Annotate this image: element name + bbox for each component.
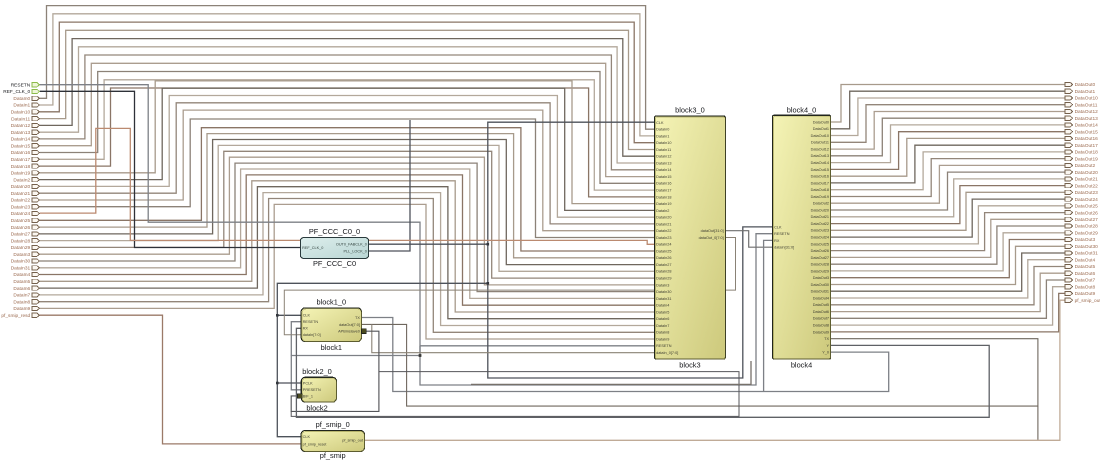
svg-text:DataIn29: DataIn29 [656, 277, 671, 281]
svg-text:DataOut22: DataOut22 [1075, 183, 1099, 189]
wire net DataIn5: port to block3.DataIn5 [40, 181, 655, 312]
svg-text:DataIn30: DataIn30 [11, 259, 31, 265]
port DataIn3 [32, 252, 40, 256]
svg-text:block3: block3 [679, 361, 700, 370]
port DataOut12 [1065, 109, 1073, 113]
port DataOut18 [1065, 150, 1073, 154]
svg-text:DataIn12: DataIn12 [656, 155, 671, 159]
port DataOut15 [1065, 130, 1073, 134]
svg-text:DataIn18: DataIn18 [656, 195, 671, 199]
svg-text:DataOut16: DataOut16 [811, 175, 829, 179]
port DataOut8 [1065, 285, 1073, 289]
svg-text:BIF_1: BIF_1 [303, 394, 313, 398]
wire net DataIn30: port to block3.DataIn30 [40, 163, 655, 292]
svg-text:dataIn[31:0]: dataIn[31:0] [774, 246, 794, 250]
svg-text:OUT0_FABCLK_0: OUT0_FABCLK_0 [336, 243, 367, 247]
port DataIn7 [32, 293, 40, 297]
svg-text:PF_CCC_C0: PF_CCC_C0 [313, 259, 356, 268]
svg-text:CLK: CLK [774, 225, 782, 229]
wire net DataIn29: port to block3.DataIn29 [40, 151, 655, 278]
svg-text:DataOut17: DataOut17 [1075, 143, 1099, 149]
port DataIn20 [32, 184, 40, 188]
svg-text:DataIn13: DataIn13 [656, 161, 671, 165]
svg-text:DataOut4: DataOut4 [1075, 257, 1096, 263]
block2 BIF_1 bus pin [298, 394, 303, 399]
wire net DataOut14: block4.DataOut14 to port [831, 125, 1065, 163]
wire net DataOut23: block4.DataOut23 to port [831, 192, 1065, 230]
svg-text:DataOut30: DataOut30 [811, 283, 829, 287]
svg-text:DataIn1: DataIn1 [656, 134, 669, 138]
svg-text:block4: block4 [791, 361, 812, 370]
wire net DataIn25: port to block3.DataIn25 [40, 128, 655, 251]
svg-text:DataOut26: DataOut26 [811, 249, 829, 253]
svg-text:RX: RX [774, 239, 780, 243]
wire net DataOut24: block4.DataOut24 to port [831, 199, 1065, 237]
svg-text:DataIn14: DataIn14 [11, 137, 31, 143]
svg-text:block4_0: block4_0 [787, 106, 817, 115]
port DataIn12 [32, 123, 40, 127]
wire net DataOut2: block4.DataOut2 to port [831, 165, 1065, 203]
port DataIn26 [32, 225, 40, 229]
wire RESETN branch to block3.RESETN [419, 346, 421, 356]
port DataOut19 [1065, 157, 1073, 161]
svg-text:DataOut8: DataOut8 [813, 324, 829, 328]
wire net DataIn14: port to block3.DataIn14 [40, 55, 655, 170]
wire net DataIn24 (salmon) port to block3.DataIn24 [40, 128, 655, 244]
svg-text:DataIn12: DataIn12 [11, 123, 31, 129]
wire net DataIn15: port to block3.DataIn15 [40, 63, 655, 176]
wire net DataIn27: port to block3.DataIn27 [40, 140, 655, 265]
svg-text:DataIn28: DataIn28 [656, 270, 671, 274]
svg-text:APBmslave0: APBmslave0 [338, 330, 360, 334]
svg-text:CLK: CLK [656, 121, 664, 125]
svg-text:DataOut11: DataOut11 [811, 141, 829, 145]
wire net DataIn7: port to block3.DataIn7 [40, 193, 655, 326]
wire net DataIn9: port to block3.DataIn9 [40, 204, 655, 339]
svg-text:DataIn5: DataIn5 [656, 310, 669, 314]
svg-text:DataOut28: DataOut28 [811, 263, 829, 267]
port DataOut11 [1065, 103, 1073, 107]
wire net DataOut16: block4.DataOut16 to port [831, 138, 1065, 176]
svg-text:DataOut10: DataOut10 [811, 134, 829, 138]
port DataOut10 [1065, 96, 1073, 100]
svg-text:RESETN: RESETN [774, 232, 790, 236]
svg-text:TX: TX [355, 316, 360, 320]
svg-text:DataIn23: DataIn23 [11, 204, 31, 210]
svg-text:PCLK: PCLK [303, 381, 313, 385]
svg-text:DataIn1: DataIn1 [13, 103, 30, 109]
svg-text:DataIn16: DataIn16 [11, 150, 31, 156]
svg-text:DataIn4: DataIn4 [13, 272, 30, 278]
svg-text:DataOut4: DataOut4 [813, 296, 829, 300]
svg-text:RESETN: RESETN [303, 320, 319, 324]
port DataIn13 [32, 130, 40, 134]
svg-text:PF_CCC_C0_0: PF_CCC_C0_0 [309, 227, 360, 236]
wire net DataOut18: block4.DataOut18 to port [831, 152, 1065, 190]
port RESETN [32, 83, 40, 87]
svg-text:DataIn6: DataIn6 [656, 317, 669, 321]
wire net DataOut13: block4.DataOut13 to port [831, 118, 1065, 156]
svg-text:DataOut6: DataOut6 [1075, 271, 1096, 277]
svg-text:DataOut8: DataOut8 [1075, 284, 1096, 290]
wire net DataOut5: block4.DataOut5 to port [831, 267, 1065, 305]
svg-text:DataIn23: DataIn23 [656, 236, 671, 240]
wire net REF_CLK_0 (left port to PF_CCC_C0_0.REF_CLK_0) [40, 91, 301, 247]
svg-text:DataIn17: DataIn17 [656, 189, 671, 193]
wire net DataIn8: port to block3.DataIn8 [40, 199, 655, 333]
svg-text:block2_0: block2_0 [302, 367, 332, 376]
wire net DataOut3: block4.DataOut3 to port [831, 240, 1065, 278]
wire net pf_smip_out (tan) pf_smip to right port [365, 300, 1066, 440]
port DataIn14 [32, 137, 40, 141]
svg-text:DataOut15: DataOut15 [1075, 129, 1099, 135]
port DataIn11 [32, 117, 40, 121]
wire RESETN branch to block1/block2 [291, 356, 420, 390]
svg-text:DataIn21: DataIn21 [656, 222, 671, 226]
wire net DataOut21: block4.DataOut21 to port [831, 179, 1065, 217]
svg-text:DataIn14: DataIn14 [656, 168, 671, 172]
svg-text:DataOut28: DataOut28 [1075, 224, 1099, 230]
svg-text:DataOut1: DataOut1 [1075, 89, 1096, 95]
wire net pf_smip_resd (salmon) left port to pf_smip.pf_smip_reset [40, 315, 302, 444]
port DataOut22 [1065, 184, 1073, 188]
clock trunk down and to block4.CLK [488, 227, 773, 378]
svg-text:DataOut7: DataOut7 [1075, 278, 1096, 284]
wire net DataOut26: block4.DataOut26 to port [831, 213, 1065, 251]
wire net DataOut27: block4.DataOut27 to port [831, 219, 1065, 257]
port DataOut5 [1065, 264, 1073, 268]
clock branch left to small blocks [277, 283, 488, 436]
wire net DataIn1: port to block3.DataIn1 [40, 14, 655, 136]
block1 APBmslave0 bus pin [362, 329, 367, 334]
port DataOut3 [1065, 237, 1073, 241]
svg-text:DataOut3: DataOut3 [813, 276, 829, 280]
svg-text:DataIn18: DataIn18 [11, 164, 31, 170]
wire net DataIn6: port to block3.DataIn6 [40, 187, 655, 319]
wire net DataOut22: block4.DataOut22 to port [831, 186, 1065, 224]
wire net DataIn17: port to block3.DataIn17 [40, 80, 655, 190]
svg-text:DataIn24: DataIn24 [11, 211, 31, 217]
svg-text:DataIn21: DataIn21 [11, 191, 31, 197]
wire net DataIn31: port to block3.DataIn31 [40, 169, 655, 298]
svg-text:DataOut31: DataOut31 [1075, 251, 1099, 257]
svg-text:DataIn8: DataIn8 [656, 331, 669, 335]
svg-text:DataIn31: DataIn31 [11, 266, 31, 272]
svg-text:DataIn10: DataIn10 [11, 110, 31, 116]
svg-text:DataIn13: DataIn13 [11, 130, 31, 136]
svg-text:DataIn30: DataIn30 [656, 290, 671, 294]
wire net DataIn10: port to block3.DataIn10 [40, 22, 655, 143]
svg-text:DataIn3: DataIn3 [13, 252, 30, 258]
block2_0 [301, 377, 336, 402]
port DataOut20 [1065, 170, 1073, 174]
svg-text:DataIn22: DataIn22 [656, 229, 671, 233]
svg-text:RESETN: RESETN [11, 82, 31, 88]
svg-text:DataOut25: DataOut25 [811, 242, 829, 246]
wire net DataOut8: block4.DataOut8 to port [831, 287, 1065, 325]
svg-text:DataOut24: DataOut24 [1075, 197, 1099, 203]
svg-text:DataOut0: DataOut0 [1075, 82, 1096, 88]
wire net DataOut7: block4.DataOut7 to port [831, 280, 1065, 318]
svg-text:DataIn27: DataIn27 [11, 232, 31, 238]
svg-text:DataOut15: DataOut15 [811, 168, 829, 172]
svg-text:dataIn_0[7:0]: dataIn_0[7:0] [656, 351, 678, 355]
svg-text:block2: block2 [306, 404, 327, 413]
svg-text:CLK: CLK [303, 435, 311, 439]
wire net DataOut11: block4.DataOut11 to port [831, 105, 1065, 143]
wire net DataOut28: block4.DataOut28 to port [831, 226, 1065, 264]
wire net DataIn13: port to block3.DataIn13 [40, 47, 655, 163]
wire net DataIn16: port to block3.DataIn16 [40, 72, 655, 184]
svg-text:DataOut29: DataOut29 [811, 269, 829, 273]
svg-text:DataOut2: DataOut2 [1075, 163, 1096, 169]
svg-text:DataIn25: DataIn25 [11, 218, 31, 224]
port DataOut30 [1065, 244, 1073, 248]
svg-text:DataOut3: DataOut3 [1075, 237, 1096, 243]
port DataIn31 [32, 266, 40, 270]
svg-text:DataIn7: DataIn7 [13, 293, 30, 299]
svg-text:DataOut22: DataOut22 [811, 222, 829, 226]
wire net DataIn11: port to block3.DataIn11 [40, 30, 655, 149]
port DataIn10 [32, 110, 40, 114]
svg-text:DataIn2: DataIn2 [13, 177, 30, 183]
svg-text:PRESETN: PRESETN [303, 388, 321, 392]
svg-text:DataOut21: DataOut21 [811, 215, 829, 219]
svg-text:DataOut6: DataOut6 [813, 310, 829, 314]
wire net DataOut15: block4.DataOut15 to port [831, 132, 1065, 170]
svg-text:DataIn4: DataIn4 [656, 304, 669, 308]
wire net DataIn4: port to block3.DataIn4 [40, 175, 655, 305]
svg-text:DataOut23: DataOut23 [1075, 190, 1099, 196]
wire net DataIn20: port to block3.DataIn20 [40, 96, 655, 218]
block4 pin labels [774, 120, 829, 354]
port pf_smip_resd [32, 313, 40, 317]
svg-text:DataIn22: DataIn22 [11, 198, 31, 204]
svg-text:DataOut30: DataOut30 [1075, 244, 1099, 250]
port DataOut26 [1065, 211, 1073, 215]
svg-text:DataOut27: DataOut27 [811, 256, 829, 260]
block4_0 (large) [773, 115, 831, 359]
port DataIn2 [32, 178, 40, 182]
clock stub to block2.PCLK [277, 382, 301, 384]
svg-text:TX: TX [824, 337, 829, 341]
decor nested wire under block3 [471, 361, 751, 384]
svg-text:DataOut26: DataOut26 [1075, 210, 1099, 216]
wire net DataOut12: block4.DataOut12 to port [831, 112, 1065, 150]
port DataIn23 [32, 205, 40, 209]
port DataIn29 [32, 245, 40, 249]
svg-text:DataOut19: DataOut19 [811, 195, 829, 199]
port DataIn5 [32, 279, 40, 283]
svg-text:DataIn16: DataIn16 [656, 182, 671, 186]
svg-text:DataOut1: DataOut1 [813, 127, 829, 131]
svg-text:DataOut10: DataOut10 [1075, 96, 1099, 102]
port DataOut4 [1065, 258, 1073, 262]
svg-text:DataOut11: DataOut11 [1075, 102, 1098, 108]
wire net PLL_LOCK_0 from PF_CCC up [369, 120, 411, 251]
svg-text:pf_smip_out: pf_smip_out [1075, 298, 1100, 304]
svg-text:dataOut[7:0]: dataOut[7:0] [339, 323, 360, 327]
wire net DataIn18: port to block3.DataIn18 [40, 88, 655, 197]
svg-text:DataOut29: DataOut29 [1075, 231, 1099, 237]
svg-text:DataOut19: DataOut19 [1075, 156, 1099, 162]
port DataOut23 [1065, 190, 1073, 194]
svg-text:pf_smip: pf_smip [320, 451, 346, 460]
svg-text:DataIn0: DataIn0 [13, 96, 30, 102]
svg-text:DataOut24: DataOut24 [811, 236, 829, 240]
svg-text:DataOut0: DataOut0 [813, 120, 829, 124]
svg-text:DataOut13: DataOut13 [811, 154, 829, 158]
port DataOut25 [1065, 204, 1073, 208]
svg-text:RX: RX [303, 327, 309, 331]
svg-text:DataOut14: DataOut14 [811, 161, 829, 165]
svg-text:DataIn24: DataIn24 [656, 243, 671, 247]
port DataOut9 [1065, 291, 1073, 295]
port DataIn17 [32, 157, 40, 161]
svg-text:DataIn8: DataIn8 [13, 299, 30, 305]
svg-text:DataOut25: DataOut25 [1075, 204, 1099, 210]
svg-text:DataOut21: DataOut21 [1075, 177, 1099, 183]
svg-text:DataOut18: DataOut18 [1075, 150, 1099, 156]
svg-text:pf_smip_resd: pf_smip_resd [1, 313, 30, 319]
port DataOut16 [1065, 136, 1073, 140]
clock stub to block1.CLK [277, 314, 301, 316]
wire block1.dataOut to block3.dataIn_0[7:0] [372, 324, 655, 352]
wire net DataOut1: block4.DataOut1 to port [831, 91, 1065, 129]
port DataOut2 [1065, 163, 1073, 167]
svg-text:DataIn29: DataIn29 [11, 245, 31, 251]
port DataIn22 [32, 198, 40, 202]
wire net DataIn28: port to block3.DataIn28 [40, 145, 655, 271]
port DataOut14 [1065, 123, 1073, 127]
port DataIn15 [32, 144, 40, 148]
svg-text:DataIn5: DataIn5 [13, 279, 30, 285]
svg-text:DataIn6: DataIn6 [13, 286, 30, 292]
wire net DataOut31: block4.DataOut31 to port [831, 253, 1065, 291]
svg-text:DataOut7: DataOut7 [813, 317, 829, 321]
svg-text:DataOut17: DataOut17 [811, 181, 829, 185]
svg-text:DataOut27: DataOut27 [1075, 217, 1099, 223]
port DataIn8 [32, 300, 40, 304]
wire RESETN branch to block1.RESETN [291, 322, 301, 356]
svg-text:DataIn15: DataIn15 [11, 143, 31, 149]
port REF_CLK_0 [32, 89, 40, 93]
svg-text:DataIn11: DataIn11 [656, 148, 671, 152]
svg-text:DataOut9: DataOut9 [1075, 291, 1096, 297]
wire net DataOut30: block4.DataOut30 to port [831, 246, 1065, 284]
svg-text:DataIn7: DataIn7 [656, 324, 669, 328]
port DataOut21 [1065, 177, 1073, 181]
port DataIn18 [32, 164, 40, 168]
wire net DataIn22: port to block3.DataIn22 [40, 110, 655, 231]
port DataIn0 [32, 96, 40, 100]
wire net OUT0_FABCLK_0 (clock) PF_CCC to block3.CLK [369, 122, 655, 244]
wire net DataIn26: port to block3.DataIn26 [40, 134, 655, 258]
wire net DataOut9: block4.DataOut9 to port [831, 293, 1065, 332]
svg-text:DataIn26: DataIn26 [656, 256, 671, 260]
wire stub down to tan line [1037, 406, 1039, 440]
port DataIn6 [32, 286, 40, 290]
svg-text:pf_smip_0: pf_smip_0 [316, 420, 350, 429]
wire net DataOut0: block4.DataOut0 to port [831, 85, 1065, 123]
svg-text:dataIn[7:0]: dataIn[7:0] [303, 333, 321, 337]
wire net DataIn2: port to block3.DataIn2 [40, 88, 655, 210]
wire bus dataOut_0[7:0] block3 to block1.dataIn[7:0] [284, 238, 735, 335]
svg-text:DataIn26: DataIn26 [11, 225, 31, 231]
port DataOut27 [1065, 217, 1073, 221]
wire net DataIn23: port to block3.DataIn23 [40, 119, 655, 238]
port DataIn1 [32, 103, 40, 107]
svg-text:block1: block1 [321, 343, 342, 352]
svg-text:PLL_LOCK_0: PLL_LOCK_0 [343, 249, 366, 253]
port DataOut6 [1065, 271, 1073, 275]
block3 left pin labels [656, 121, 724, 355]
svg-text:DataIn20: DataIn20 [656, 216, 671, 220]
svg-text:DataOut23: DataOut23 [811, 229, 829, 233]
svg-text:DataIn10: DataIn10 [656, 141, 671, 145]
wire net DataOut10: block4.DataOut10 to port [831, 98, 1065, 136]
wire net DataIn0: port to block3.DataIn0 [40, 6, 655, 130]
wire net DataOut19: block4.DataOut19 to port [831, 159, 1065, 197]
port DataIn16 [32, 150, 40, 154]
block1_0 [301, 308, 361, 342]
wire net DataIn3: port to block3.DataIn3 [40, 157, 655, 285]
port DataOut31 [1065, 251, 1073, 255]
svg-text:DataOut18: DataOut18 [811, 188, 829, 192]
port DataIn27 [32, 232, 40, 236]
svg-text:DataOut14: DataOut14 [1075, 123, 1099, 129]
port DataIn4 [32, 272, 40, 276]
svg-text:DataOut12: DataOut12 [811, 148, 829, 152]
wire bus dataOut[31:0] block3 to block4.dataIn[31:0] [725, 231, 772, 248]
wire branch up to block4.RX [764, 240, 773, 391]
svg-text:REF_CLK_0: REF_CLK_0 [3, 89, 30, 95]
svg-text:DataIn15: DataIn15 [656, 175, 671, 179]
svg-text:DataIn9: DataIn9 [656, 337, 669, 341]
svg-text:DataIn31: DataIn31 [656, 297, 671, 301]
svg-text:DataOut12: DataOut12 [1075, 109, 1099, 115]
op block PF_CCC_C0_0 [301, 238, 369, 259]
wire net RESETN trunk (left port down at x=148 and to block4.RESETN) [40, 85, 773, 385]
svg-text:DataIn19: DataIn19 [656, 202, 671, 206]
port DataIn30 [32, 259, 40, 263]
port DataIn21 [32, 191, 40, 195]
wire block4.Y to block1.RX [296, 328, 989, 417]
port pf_smip_out [1065, 298, 1073, 302]
svg-text:DataIn20: DataIn20 [11, 184, 31, 190]
svg-text:DataIn27: DataIn27 [656, 263, 671, 267]
pf_smip_0 [301, 431, 365, 452]
svg-text:pf_smip_out: pf_smip_out [342, 439, 364, 443]
svg-text:REF_CLK_0: REF_CLK_0 [302, 246, 323, 250]
port DataOut13 [1065, 116, 1073, 120]
svg-text:RESETN: RESETN [656, 344, 672, 348]
wire net DataIn12: port to block3.DataIn12 [40, 39, 655, 157]
port DataOut1 [1065, 89, 1073, 93]
port DataIn19 [32, 171, 40, 175]
wire net DataOut17: block4.DataOut17 to port [831, 145, 1065, 183]
wire net DataIn19: port to block3.DataIn19 [40, 81, 655, 204]
port DataOut28 [1065, 224, 1073, 228]
svg-text:DataOut16: DataOut16 [1075, 136, 1099, 142]
port DataIn28 [32, 239, 40, 243]
svg-text:DataOut31: DataOut31 [811, 290, 829, 294]
svg-text:DataIn2: DataIn2 [656, 209, 669, 213]
svg-text:DataIn17: DataIn17 [11, 157, 31, 163]
svg-text:DataOut20: DataOut20 [811, 208, 829, 212]
svg-text:dataOut[31:0]: dataOut[31:0] [701, 229, 724, 233]
port DataIn25 [32, 218, 40, 222]
